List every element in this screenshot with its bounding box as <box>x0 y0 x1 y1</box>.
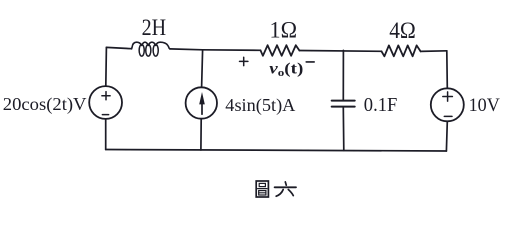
svg-text:0.1F: 0.1F <box>364 94 398 116</box>
svg-text:2H: 2H <box>142 15 167 40</box>
svg-text:4sin(5t)A: 4sin(5t)A <box>225 95 295 116</box>
svg-text:vo(t): vo(t) <box>269 60 303 79</box>
svg-text:1Ω: 1Ω <box>270 17 298 42</box>
svg-text:10V: 10V <box>469 95 500 116</box>
svg-text:4Ω: 4Ω <box>389 18 416 43</box>
svg-text:20cos(2t)V: 20cos(2t)V <box>3 94 87 115</box>
